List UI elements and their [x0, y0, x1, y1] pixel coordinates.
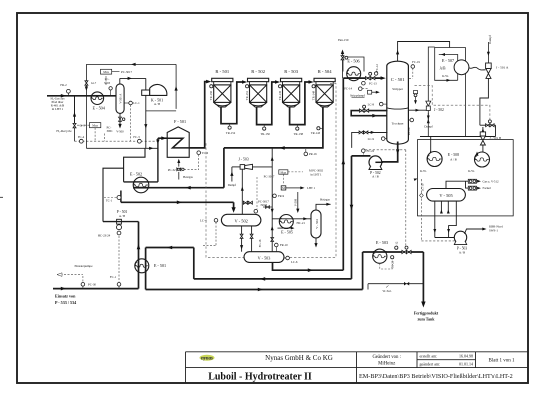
hot return upper line: [146, 247, 194, 249]
svg-text:Max: Max: [281, 170, 287, 174]
svg-text:FC-14: FC-14: [344, 87, 352, 91]
svg-text:Fertigprodukt: Fertigprodukt: [414, 310, 439, 315]
heat exchanger E-502: [130, 172, 149, 193]
product downcomer to tank: [421, 252, 425, 308]
E-502 top pass line: [124, 181, 158, 183]
svg-text:Max: Max: [92, 124, 98, 128]
svg-text:TR-143: TR-143: [311, 131, 321, 135]
feed inlet line: [53, 288, 139, 290]
svg-text:E - 504: E - 504: [93, 105, 106, 110]
column C-501: [387, 61, 409, 144]
svg-text:geändert am:: geändert am:: [420, 361, 441, 366]
PC-3017 label top: [112, 70, 133, 74]
instrument PR-26: [407, 118, 414, 135]
R-501 transfer to R-502: [221, 82, 244, 124]
pump P-501 A/B: [117, 210, 128, 235]
valve set on vacuum line: [480, 120, 496, 137]
Max box PC-3001: [77, 123, 113, 142]
E-507 inner loop: [439, 53, 458, 80]
arrow on V-503 bottoms: [308, 268, 313, 272]
arrow down on furnace riser: [156, 139, 159, 144]
arrow into V-502: [232, 207, 236, 213]
V-505 gas line to V-512: [446, 179, 499, 188]
svg-text:SWS-1: SWS-1: [489, 229, 498, 233]
svg-text:in LHT 1: in LHT 1: [310, 172, 322, 176]
J-503 discharge line: [253, 166, 273, 168]
Einsatz von text: [55, 293, 76, 305]
ejector J-501 A: [486, 63, 509, 78]
svg-text:V-508: V-508: [293, 198, 297, 206]
hot return riser: [193, 248, 195, 279]
svg-text:16.04.98: 16.04.98: [459, 353, 473, 358]
instrument FR-2: [60, 83, 70, 96]
E-502 outlet drop: [120, 191, 122, 203]
svg-text:J - 501 A: J - 501 A: [496, 66, 509, 70]
svg-text:zum Tank: zum Tank: [417, 317, 435, 322]
svg-text:Heizgas: Heizgas: [183, 175, 193, 179]
instrument TC-1: [104, 196, 121, 203]
svg-text:Luboil - Hydrotreater II: Luboil - Hydrotreater II: [208, 371, 312, 382]
dashed FC-1 signal line: [118, 236, 120, 282]
svg-text:Dampf: Dampf: [228, 183, 236, 187]
H2 recycle riser: [74, 96, 76, 124]
instrument LC-4: [200, 219, 218, 246]
V-501 bottom drain valve: [119, 113, 125, 121]
V-504 top line to Heizgas: [316, 198, 331, 210]
svg-text:V-500: V-500: [116, 130, 124, 134]
J-502 steam inlet: [424, 113, 432, 128]
heat exchanger E-507 shell: [454, 60, 469, 75]
svg-text:C - 501: C - 501: [391, 77, 405, 82]
svg-text:PC-32: PC-32: [168, 168, 176, 172]
K-501 suction drop: [145, 78, 147, 148]
arrow on effluent line: [186, 186, 191, 190]
hot return lower line: [194, 278, 352, 280]
svg-text:FC-19: FC-19: [412, 60, 420, 64]
PC-3017 label mid: [264, 174, 284, 184]
heat exchanger E-508 A: [420, 152, 459, 173]
arrow into R-501: [206, 80, 211, 84]
instrument FR-9: [273, 194, 285, 198]
flare line with valves: [338, 38, 349, 78]
Max box PC-3002: [279, 170, 288, 175]
svg-text:3003: 3003: [104, 81, 111, 85]
arrow on hot return upper: [167, 246, 172, 250]
TR instruments on reactor inlets: [209, 85, 213, 100]
reactor R - 502: [248, 69, 269, 107]
feed transfer line to stripper circuit: [146, 289, 363, 291]
R-503 transfer to R-504: [290, 82, 310, 125]
instrument FR-10: [275, 243, 289, 252]
svg-text:PC-3017: PC-3017: [264, 174, 275, 178]
svg-text:V-501 A: V-501 A: [118, 93, 122, 104]
instrument LC-10 dashed: [414, 177, 468, 241]
svg-text:E - 502: E - 502: [130, 172, 142, 177]
P-503 discharge to KBR-Nord: [465, 225, 504, 234]
fuel gas valve PC-32 with Heizgas line: [168, 159, 194, 180]
svg-text:TR-152: TR-152: [226, 131, 236, 135]
svg-text:E - 501: E - 501: [154, 263, 166, 268]
reactor R - 503: [281, 69, 302, 107]
relief valve to vacuum line: [413, 91, 417, 105]
V-502 to V-503 drain lines: [240, 226, 262, 252]
arrow into furnace coil: [161, 136, 166, 140]
control valves on stripper feed: [366, 72, 375, 79]
heat exchanger E-501: [135, 259, 166, 273]
instrument FC-22: [362, 149, 375, 156]
svg-text:R - 504: R - 504: [318, 69, 332, 74]
svg-text:V - 505: V - 505: [439, 193, 453, 198]
svg-text:EM-BP3\Daten\BP3 Betrieb\VISIO: EM-BP3\Daten\BP3 Betrieb\VISIO-Fließbild…: [359, 373, 513, 380]
separator V-503: [244, 252, 284, 263]
stripper feed line through E-506: [343, 77, 383, 79]
svg-text:M: M: [282, 186, 285, 190]
svg-text:in LHT 1: in LHT 1: [52, 107, 64, 111]
P-501 suction header: [103, 221, 139, 223]
Max box PC-3017: [101, 69, 112, 74]
svg-text:TR-149: TR-149: [311, 90, 315, 100]
Fertigprodukt text: [414, 310, 439, 321]
M actuator box to LHT 1: [281, 186, 315, 190]
arrow up on feed riser: [137, 244, 141, 249]
furnace F-501: [167, 119, 189, 157]
separator V-501: [116, 84, 124, 114]
furnace coil inlet stub: [158, 137, 167, 139]
instrument LC-6: [284, 256, 298, 264]
svg-text:PC-3017: PC-3017: [121, 70, 132, 74]
instrument FC-12: [374, 64, 379, 76]
svg-text:LC-8: LC-8: [368, 103, 375, 107]
svg-text:E - 503: E - 503: [376, 240, 388, 245]
feed riser through E-501: [138, 222, 140, 289]
valve on recycle riser: [73, 123, 85, 127]
arrow down to main line: [85, 86, 88, 91]
return downcomer through E-501: [145, 248, 147, 290]
anti-surge loop bottom: [146, 110, 176, 112]
V-505 line to Fackel: [466, 181, 491, 190]
arrow into C-501 stripper: [381, 76, 386, 80]
arrow into R-504: [309, 80, 314, 84]
svg-text:Heizgas: Heizgas: [320, 198, 330, 202]
instrument FC-19 on column top: [409, 60, 420, 78]
R-502 transfer to R-503: [257, 82, 277, 125]
V-505 bottom outlet lines: [440, 201, 450, 213]
instrument PR-16: [304, 149, 317, 156]
P-502 discharge line: [352, 155, 371, 157]
svg-text:V - 502: V - 502: [235, 219, 248, 224]
svg-text:LHT 1: LHT 1: [307, 186, 316, 190]
svg-text:MiHeinz: MiHeinz: [378, 362, 395, 367]
branch riser below main line to recycle path: [85, 96, 87, 149]
svg-text:R - 503: R - 503: [284, 69, 298, 74]
svg-text:LC-9: LC-9: [368, 137, 375, 141]
heat exchanger E-505: [272, 215, 311, 235]
svg-text:01.01.14: 01.01.14: [459, 361, 473, 366]
arrow on reactor effluent header: [280, 146, 285, 150]
R-504 outlet downcomer: [224, 107, 323, 148]
reactor R - 504: [314, 69, 335, 107]
J-502 suction from column: [408, 109, 426, 112]
Einsatzpumpe dashed signal: [57, 264, 93, 282]
column bottom outlet to P-502: [382, 142, 400, 162]
svg-text:R - 501: R - 501: [215, 69, 229, 74]
staircase pipe upper: [124, 148, 145, 182]
svg-text:P - 533 / 534: P - 533 / 534: [55, 300, 76, 305]
svg-text:TC-23: TC-23: [391, 260, 395, 268]
svg-text:FR-2: FR-2: [60, 83, 67, 87]
reactor R - 501: [212, 69, 233, 107]
instrument LC-9: [368, 137, 387, 141]
heat exchanger E-504: [91, 92, 106, 110]
svg-text:HC-23/24: HC-23/24: [98, 233, 111, 237]
dashed LC-1 signal: [130, 105, 132, 141]
V-504 bottom drain: [314, 238, 317, 248]
svg-text:TR-150: TR-150: [261, 132, 271, 136]
battery limit dashed boundary: [206, 84, 336, 258]
instrument FC-1: [110, 275, 121, 289]
arrow on recycle tie: [149, 147, 153, 150]
arrow down on K-501 drop: [144, 124, 147, 128]
separator V-502: [221, 214, 261, 226]
instrument TC-23: [380, 256, 395, 269]
svg-text:FC-12: FC-12: [375, 64, 379, 72]
svg-text:FC-13: FC-13: [369, 81, 377, 85]
svg-text:Max: Max: [103, 70, 109, 74]
riser from feed transfer to E-503: [362, 252, 364, 290]
compressor K-501: [142, 84, 167, 106]
svg-text:Fkn-150: Fkn-150: [338, 38, 349, 42]
svg-text:FC-22: FC-22: [367, 149, 375, 153]
svg-text:A / B: A / B: [119, 214, 125, 218]
stripper feed riser: [342, 78, 344, 270]
V-501 overhead riser: [120, 77, 146, 84]
svg-text:Fackel: Fackel: [483, 186, 491, 190]
svg-text:3001: 3001: [107, 129, 114, 133]
stub valve on vapor line: [263, 206, 272, 209]
svg-text:PC-30: PC-30: [88, 283, 96, 287]
svg-text:Gas z. V-512: Gas z. V-512: [483, 179, 500, 183]
svg-text:FC-4: FC-4: [78, 135, 85, 139]
pump P-502 A/B: [369, 156, 383, 179]
svg-text:TC-6: TC-6: [202, 151, 209, 155]
svg-text:FC-1: FC-1: [110, 275, 117, 279]
svg-text:F - 501: F - 501: [174, 119, 186, 124]
J-502 overhead connection: [428, 47, 434, 101]
drain to V-508: [293, 192, 299, 213]
valve on branch riser: [85, 81, 97, 85]
cooling water line W.Zul: [368, 282, 423, 293]
cross branch to P-501 leg: [103, 168, 124, 221]
svg-text:E - 507: E - 507: [442, 58, 454, 63]
instrument PR-12 and valves on product line: [395, 241, 412, 253]
reactor effluent line into E-502: [133, 187, 224, 189]
svg-text:Einsatz von: Einsatz von: [55, 293, 76, 298]
arrow on feed inlet: [61, 287, 66, 291]
svg-text:LC-6: LC-6: [291, 260, 298, 264]
svg-text:erstellt am:: erstellt am:: [420, 353, 438, 358]
svg-text:E - 506: E - 506: [347, 58, 359, 63]
P-502 downcomer: [351, 156, 353, 279]
arrow on hot return lower: [260, 277, 265, 281]
svg-text:A / B: A / B: [450, 157, 457, 161]
PC-3003 label: [104, 77, 111, 85]
svg-text:E - 505: E - 505: [281, 229, 293, 234]
chimney tray drawoff loop: [351, 105, 387, 117]
svg-text:FR-9: FR-9: [278, 194, 285, 198]
arrow into R-502: [242, 80, 247, 84]
J-502 condensate drop to E-508A: [427, 111, 432, 155]
svg-text:PR-16: PR-16: [309, 152, 317, 156]
dates cell: [420, 353, 474, 366]
M PC-3002 in LHT 1 label: [288, 168, 324, 176]
flare header line top: [86, 63, 176, 65]
svg-text:A / B: A / B: [372, 175, 379, 179]
svg-text:Einsatzpumpe: Einsatzpumpe: [74, 264, 93, 268]
PC-3017 lower label with valve: [254, 177, 269, 213]
svg-text:A / B: A / B: [459, 250, 465, 254]
E-507 to J-501A connector: [469, 67, 486, 70]
svg-text:K.W.: K.W.: [468, 169, 475, 173]
ejector J-503: [238, 158, 252, 170]
svg-text:K.W.: K.W.: [442, 74, 449, 78]
anti-surge loop right leg: [175, 64, 177, 109]
dashed signal FC-22 to product valve: [365, 150, 406, 246]
E-507 condensate drop: [465, 48, 467, 137]
ejector J-502: [426, 101, 444, 112]
steam riser to J-503: [228, 167, 240, 187]
instrument LC-8: [368, 102, 387, 106]
svg-text:V - 504: V - 504: [315, 219, 319, 229]
svg-text:LC-10: LC-10: [421, 183, 425, 191]
svg-text:LC-4: LC-4: [200, 219, 207, 223]
heat exchanger E-508 B: [468, 152, 489, 173]
arrow down on P-502 downcomer: [350, 205, 354, 210]
furnace outlet to reactor riser: [189, 82, 206, 148]
instrument FC-4: [78, 135, 85, 143]
FC-14 with Strippdampf steam line: [344, 87, 379, 98]
instrument PC-30: [81, 283, 96, 289]
svg-text:J - 503: J - 503: [238, 158, 248, 162]
instrument TC-6: [184, 151, 209, 170]
arrow up on stripper feed riser: [342, 159, 346, 164]
svg-text:H₂-Recycle: H₂-Recycle: [56, 129, 72, 133]
arrow up on overhead: [396, 50, 399, 54]
svg-text:Nynas GmbH & Co KG: Nynas GmbH & Co KG: [265, 354, 333, 362]
dashed FC line across bottom of compressor area: [75, 140, 158, 142]
TR-143 on R-504 outlet: [311, 127, 323, 135]
cooling section enclosure: [418, 140, 514, 216]
svg-text:LC-1: LC-1: [133, 101, 140, 105]
svg-text:Geändert von :: Geändert von :: [372, 355, 401, 360]
instrument FC-3: [133, 135, 141, 143]
svg-text:FC-18: FC-18: [258, 239, 262, 247]
J-501A discharge path: [480, 78, 489, 125]
svg-text:FC-3: FC-3: [133, 135, 140, 139]
heat exchanger E-503: [373, 240, 388, 263]
svg-text:Trockner: Trockner: [392, 122, 405, 126]
svg-text:TR-151: TR-151: [245, 90, 249, 100]
instrument FC-13: [362, 81, 378, 85]
recycle tie line to furnace riser: [86, 147, 157, 149]
svg-text:R - 502: R - 502: [251, 69, 265, 74]
arrow up on recycle riser: [73, 112, 76, 117]
title block grid: [186, 352, 529, 383]
svg-text:A / B: A / B: [154, 102, 160, 106]
svg-text:J - 502: J - 502: [434, 108, 444, 112]
branch riser lower: [85, 85, 87, 96]
product line through E-503: [363, 251, 424, 253]
svg-text:TR-150: TR-150: [209, 90, 213, 100]
arrow into R-503: [275, 80, 280, 84]
vessel V-504: [311, 210, 321, 238]
heat exchanger E-506 shell: [347, 67, 361, 81]
vapor line V-503 to effluent header: [271, 148, 274, 252]
V-503 bottoms line: [273, 262, 344, 270]
svg-text:HC-21: HC-21: [297, 221, 306, 225]
J-503 suction from V-502: [241, 169, 253, 214]
TR instruments under reactors: [226, 124, 236, 135]
geaendert von cell: [372, 355, 401, 367]
V-502 inlet elbow: [233, 202, 235, 207]
svg-text:Blatt 1 von 1: Blatt 1 von 1: [489, 359, 515, 364]
pump P-503 A/B: [454, 231, 467, 254]
reactor effluent downcomer: [223, 148, 225, 188]
arrow on flare header: [131, 63, 136, 66]
arrow down to V-500: [116, 121, 124, 133]
fold mark left margin: [0, 196, 3, 198]
arrow on feed transfer: [258, 288, 263, 292]
P-503 suction drops: [433, 201, 456, 237]
steam to J-501A: [487, 34, 492, 63]
recycle riser lower part: [74, 128, 76, 141]
column overhead line: [398, 42, 450, 62]
svg-text:TC-1: TC-1: [106, 199, 113, 203]
arrow up on anti-surge leg: [175, 86, 178, 91]
svg-text:Stripper: Stripper: [392, 87, 404, 91]
svg-text:K.W.: K.W.: [420, 169, 427, 173]
pressure tap circle above main line: [106, 76, 112, 96]
svg-text:nynas: nynas: [201, 356, 213, 361]
nynas logo: [200, 355, 215, 362]
condensate header: [420, 136, 496, 138]
exchanger E-506 box label: [343, 57, 364, 72]
dashed PR-26 signal route: [415, 86, 490, 120]
svg-text:Gi-7: Gi-7: [91, 82, 97, 85]
arrow on H2 feed: [61, 94, 66, 98]
furnace feed riser from E-502: [157, 138, 159, 182]
ejector J-501 B: [480, 127, 501, 152]
lower drawoff loop: [352, 131, 388, 148]
separator feed line to V-502: [121, 201, 234, 203]
instrument LC-1: [124, 101, 140, 105]
svg-text:TR-138: TR-138: [294, 132, 304, 136]
H2 feed source text: [50, 97, 65, 112]
svg-text:A/B: A/B: [440, 66, 447, 70]
svg-text:FR-10: FR-10: [280, 243, 288, 247]
arrow on separator feed: [177, 201, 182, 205]
svg-text:PR-26: PR-26: [407, 127, 411, 135]
svg-text:Strippdampf: Strippdampf: [350, 93, 365, 97]
svg-text:V - 503: V - 503: [258, 256, 271, 261]
vessel V-505: [427, 189, 466, 202]
exchanger E-507 box: [435, 48, 466, 82]
svg-text:W. Zul.: W. Zul.: [383, 289, 392, 293]
H2 feed main line: [47, 95, 116, 97]
svg-text:TR-139: TR-139: [278, 90, 282, 100]
branch riser with valve above main line: [85, 64, 87, 81]
